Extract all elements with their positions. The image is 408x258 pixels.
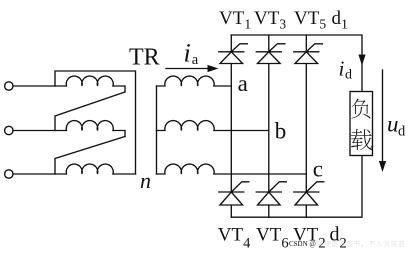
wire: primary phase C terminal lead [13, 173, 55, 175]
transformer primary winding 1 (TR) [55, 76, 125, 92]
svg-text:n: n [140, 168, 151, 193]
transformer secondary winding a [157, 76, 215, 86]
wire: negative dc rail d2 [231, 156, 362, 218]
thyristor VT5 [294, 44, 323, 64]
terminal A (circle) [5, 82, 13, 90]
wire: delta link winding1 right to winding2 left [55, 92, 125, 131]
current arrow i_a [166, 65, 219, 72]
svg-text:d: d [345, 68, 352, 83]
wire: phase a to bridge leg 1 [214, 85, 231, 87]
thyristor VT2 [294, 182, 324, 205]
wire: bridge leg 2 (phase b) [268, 35, 270, 217]
watermark [289, 240, 405, 248]
wire: primary phase B terminal lead [13, 130, 55, 132]
wire: delta link winding2 right to winding3 left [55, 137, 125, 175]
thyristor VT6 [256, 182, 286, 205]
wire: delta top link (winding1 left to winding3 right via top rail and right rail) [55, 71, 136, 174]
svg-text:a: a [238, 71, 248, 96]
voltage arrow u_d [379, 70, 386, 172]
wire: phase b to bridge leg 2 [214, 130, 269, 132]
wire: bridge leg 3 (phase c) [305, 35, 307, 217]
wire: secondary neutral rail n [156, 86, 158, 174]
svg-text:a: a [192, 52, 199, 68]
wire: primary phase A terminal lead [13, 85, 55, 87]
transformer secondary winding b [157, 121, 215, 131]
svg-text:u: u [387, 111, 399, 136]
wire: phase c to bridge leg 3 [214, 173, 306, 175]
svg-text:i: i [184, 39, 191, 68]
svg-text:TR: TR [129, 45, 160, 71]
wire: bridge leg 1 (phase a) [230, 35, 232, 217]
thyristor VT3 [256, 44, 285, 64]
svg-text:c: c [313, 157, 323, 182]
current arrow i_d [358, 55, 365, 66]
svg-text:i: i [339, 57, 345, 81]
load text zai [351, 129, 372, 150]
svg-text:CSDN @: CSDN @ [289, 240, 316, 248]
thyristor VT1 [219, 44, 248, 64]
wire: positive dc rail d1 [231, 35, 362, 92]
terminal C (circle) [5, 170, 13, 178]
svg-text:b: b [275, 119, 287, 144]
transformer secondary winding c [157, 164, 215, 174]
load text fu [351, 99, 370, 119]
terminal B (circle) [5, 126, 13, 134]
transformer primary winding 2 [55, 121, 125, 137]
load box (fu-zai) [350, 92, 373, 156]
svg-text:d: d [398, 124, 406, 140]
transformer primary winding 3 [55, 164, 136, 174]
thyristor VT4 [219, 182, 249, 205]
